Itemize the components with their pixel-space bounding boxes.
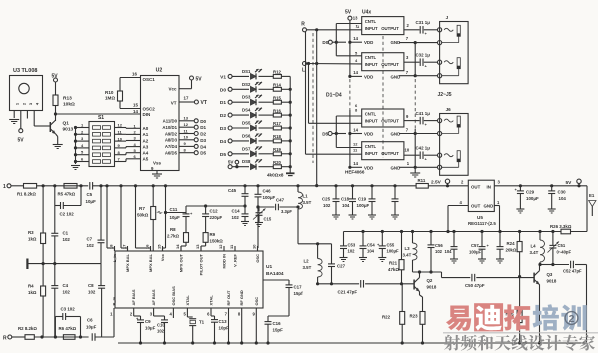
wire vertical to audio bus xyxy=(316,30,318,186)
capacitor C2 102 xyxy=(54,186,56,206)
svg-text:R14: R14 xyxy=(273,83,281,88)
svg-text:102: 102 xyxy=(232,215,240,220)
wire pin4 xyxy=(172,313,174,318)
svg-text:10μF: 10μF xyxy=(86,199,97,204)
svg-text:14: 14 xyxy=(353,127,358,132)
ground C25 xyxy=(332,214,340,216)
svg-text:C57: C57 xyxy=(471,243,479,248)
wire to LED bus xyxy=(281,153,290,155)
svg-text:1kΩ: 1kΩ xyxy=(28,237,37,242)
ground 104 mid xyxy=(450,258,458,260)
svg-text:9018: 9018 xyxy=(547,279,557,284)
svg-text:D3: D3 xyxy=(220,126,226,132)
svg-text:C9: C9 xyxy=(145,319,151,324)
svg-text:C51: C51 xyxy=(558,243,566,248)
svg-text:13: 13 xyxy=(195,244,200,249)
svg-text:D1: D1 xyxy=(220,100,226,106)
svg-text:C10: C10 xyxy=(157,323,165,328)
svg-text:Vss: Vss xyxy=(153,161,162,166)
svg-text:R13: R13 xyxy=(63,96,72,102)
ground C30 xyxy=(548,208,556,210)
capacitor C29 100u xyxy=(519,184,522,187)
svg-text:E1: E1 xyxy=(589,193,595,198)
svg-text:C13: C13 xyxy=(219,319,228,324)
wire U1 top pin risers xyxy=(106,186,108,248)
resistor R2 8.2k xyxy=(12,336,25,338)
resistor R25 xyxy=(519,277,521,310)
svg-text:U2: U2 xyxy=(156,68,163,74)
ground mid rail xyxy=(26,259,28,270)
svg-text:C2 102: C2 102 xyxy=(60,212,75,217)
svg-text:MPX BAL: MPX BAL xyxy=(125,253,130,272)
svg-text:C41 1μ: C41 1μ xyxy=(416,111,431,116)
svg-text:100μF: 100μF xyxy=(263,195,276,200)
5V terminal U2 Vcc xyxy=(179,88,192,90)
svg-text:102: 102 xyxy=(323,203,331,208)
svg-text:C27: C27 xyxy=(337,264,346,269)
svg-text:OUT: OUT xyxy=(471,184,481,189)
svg-text:CNTL: CNTL xyxy=(365,19,377,24)
IC U5 REG1117 xyxy=(468,180,494,211)
svg-text:C50 47pF: C50 47pF xyxy=(465,283,485,288)
svg-text:4k0Ωx8: 4k0Ωx8 xyxy=(267,173,284,178)
svg-text:D5: D5 xyxy=(200,151,206,156)
watermark text rf experts xyxy=(444,335,460,351)
svg-text:13: 13 xyxy=(184,116,189,121)
svg-text:1kΩ: 1kΩ xyxy=(28,290,37,295)
svg-text:S1: S1 xyxy=(98,115,104,121)
wire second bus xyxy=(344,231,562,233)
svg-text:10: 10 xyxy=(184,135,189,140)
wire U3 pins xyxy=(13,111,15,119)
svg-text:Q1: Q1 xyxy=(63,121,70,127)
svg-text:15pF: 15pF xyxy=(273,328,284,333)
svg-text:R18: R18 xyxy=(273,134,281,139)
ground U3 pin1 xyxy=(9,119,19,121)
wire U5 IN to 5V xyxy=(494,185,587,187)
svg-text:R4: R4 xyxy=(28,284,34,289)
transistor Q3 9018 xyxy=(533,273,535,283)
wire L3-C56 node line xyxy=(413,271,442,273)
svg-text:R3: R3 xyxy=(28,230,34,235)
capacitor 104 mid xyxy=(453,232,455,247)
svg-text:GND: GND xyxy=(484,203,494,208)
svg-text:C14: C14 xyxy=(232,209,241,214)
dashed separator left xyxy=(312,33,314,163)
svg-text:U4x: U4x xyxy=(362,10,371,16)
wire GND rail lower xyxy=(414,129,416,173)
dashed separator gnd rail xyxy=(414,79,416,129)
capacitor C18 104 xyxy=(351,184,354,187)
svg-text:OSC BIAS: OSC BIAS xyxy=(171,286,176,306)
capacitor C50 47p xyxy=(471,274,473,282)
svg-text:DS8: DS8 xyxy=(242,159,251,164)
svg-text:R5 47kΩ: R5 47kΩ xyxy=(58,192,76,197)
svg-text:R_in: R_in xyxy=(112,296,117,305)
svg-text:102: 102 xyxy=(63,290,71,295)
svg-text:100μF: 100μF xyxy=(526,196,539,201)
capacitor C21 47p xyxy=(318,283,360,285)
resistor R24 20k xyxy=(519,232,521,242)
wire mid ground rail xyxy=(27,263,101,265)
wire 5V corner down xyxy=(586,186,588,232)
svg-text:3.3pF: 3.3pF xyxy=(281,209,292,214)
svg-text:VDD: VDD xyxy=(364,165,373,170)
svg-text:20kΩ: 20kΩ xyxy=(506,248,517,253)
svg-text:A1: A1 xyxy=(143,132,149,137)
resistor R20 xyxy=(259,166,274,168)
resistor R3 1k xyxy=(42,186,44,233)
wire to LED bus xyxy=(281,114,290,116)
svg-text:CNTL: CNTL xyxy=(365,111,377,116)
watermark circled 2 xyxy=(565,312,578,325)
svg-text:50kΩ: 50kΩ xyxy=(137,213,149,218)
svg-text:CNTL: CNTL xyxy=(365,55,377,60)
transistor Q1 9013 xyxy=(49,122,51,132)
svg-text:R17: R17 xyxy=(273,121,281,126)
svg-text:C32 1μ: C32 1μ xyxy=(416,53,431,58)
svg-text:C11: C11 xyxy=(170,207,178,212)
resistor R21 47k xyxy=(401,232,403,260)
ground C29 xyxy=(516,208,524,210)
svg-text:A9/D2: A9/D2 xyxy=(165,131,178,136)
svg-text:14: 14 xyxy=(133,109,138,114)
svg-text:C1: C1 xyxy=(63,231,69,236)
svg-text:C12: C12 xyxy=(210,209,219,214)
svg-text:U3 TL008: U3 TL008 xyxy=(13,68,37,74)
svg-text:C56: C56 xyxy=(435,243,443,248)
svg-text:C16: C16 xyxy=(273,321,282,326)
ground LED bus xyxy=(286,172,295,174)
resistor R6 47k xyxy=(63,335,75,340)
wires S1 to U2 xyxy=(115,127,127,129)
wire to LED bus xyxy=(281,101,290,103)
svg-text:16: 16 xyxy=(132,72,137,77)
capacitor C19 100u xyxy=(370,184,373,187)
wire R/L risers to lower switches xyxy=(308,64,310,124)
wire LED right bus xyxy=(289,76,291,173)
wire to C50 xyxy=(441,272,443,278)
capacitor C45 xyxy=(243,184,246,187)
svg-text:10μF: 10μF xyxy=(170,215,181,220)
svg-text:Vcc: Vcc xyxy=(168,86,177,91)
resistor R22 xyxy=(400,312,405,325)
svg-text:XTAL: XTAL xyxy=(185,295,190,306)
svg-text:3.4T: 3.4T xyxy=(530,250,539,255)
capacitor C5 10u xyxy=(89,182,91,190)
wire R row xyxy=(307,29,362,31)
wire GND rail upper xyxy=(414,43,416,76)
resistor R16 xyxy=(259,114,274,116)
svg-text:1MΩ: 1MΩ xyxy=(105,96,115,101)
wire pins 7-9 down xyxy=(228,313,230,343)
svg-text:L: L xyxy=(302,68,305,74)
node L input xyxy=(303,62,307,66)
svg-text:U5: U5 xyxy=(477,215,483,220)
capacitor C30 104 xyxy=(550,184,553,187)
svg-text:L3: L3 xyxy=(405,246,411,251)
svg-text:L_in: L_in xyxy=(112,253,117,262)
svg-text:14: 14 xyxy=(353,161,358,166)
svg-text:V1: V1 xyxy=(220,74,226,80)
svg-text:AF BIAS: AF BIAS xyxy=(151,289,156,305)
svg-text:D0: D0 xyxy=(200,119,206,124)
svg-text:R20: R20 xyxy=(273,160,281,165)
svg-text:102: 102 xyxy=(435,249,443,254)
svg-text:R8: R8 xyxy=(170,227,176,232)
svg-text:R: R xyxy=(301,22,305,28)
wire bottom ground bus xyxy=(118,342,587,344)
capacitor C7 102 xyxy=(100,186,102,240)
svg-text:0~40pF: 0~40pF xyxy=(557,250,572,255)
wire to LED bus xyxy=(281,127,290,129)
transistor Q2 9018 xyxy=(413,280,415,290)
svg-text:PILOT OUT: PILOT OUT xyxy=(199,253,204,275)
capacitor C27 xyxy=(331,244,333,264)
svg-text:DS1: DS1 xyxy=(242,69,251,74)
svg-text:C6: C6 xyxy=(87,318,93,323)
svg-text:C25: C25 xyxy=(322,197,331,202)
svg-text:VT: VT xyxy=(171,101,177,106)
svg-text:5V: 5V xyxy=(52,74,59,80)
svg-text:L2: L2 xyxy=(304,259,310,264)
svg-text:100μF: 100μF xyxy=(469,250,482,255)
svg-text:DS3: DS3 xyxy=(242,95,251,100)
svg-text:102: 102 xyxy=(157,329,165,334)
svg-text:17: 17 xyxy=(184,96,189,101)
svg-text:T1: T1 xyxy=(199,320,205,325)
ground C18 xyxy=(349,214,357,216)
crystal T1 xyxy=(186,313,188,317)
svg-text:100μF: 100μF xyxy=(387,249,400,254)
svg-text:R6 47kΩ: R6 47kΩ xyxy=(59,326,77,331)
capacitor C10 102 xyxy=(153,313,155,316)
svg-text:C17: C17 xyxy=(294,285,303,290)
svg-text:CNTL: CNTL xyxy=(365,144,377,149)
svg-text:R22: R22 xyxy=(382,315,391,320)
svg-text:C18: C18 xyxy=(341,197,350,202)
svg-text:Vcc: Vcc xyxy=(160,253,165,261)
svg-text:C5: C5 xyxy=(87,192,93,197)
capacitor C55 100u xyxy=(381,232,383,246)
svg-text:15pf: 15pf xyxy=(294,291,304,296)
wire Q1 emitter xyxy=(56,134,58,137)
resistor R4 1k xyxy=(42,264,44,286)
capacitor C57 100u xyxy=(481,232,483,247)
svg-text:D4: D4 xyxy=(200,144,206,149)
svg-text:DS7: DS7 xyxy=(242,146,251,151)
svg-text:R9: R9 xyxy=(210,232,216,237)
resistor R23 xyxy=(420,312,425,325)
resistor R14 xyxy=(259,88,274,90)
svg-text:V_REF: V_REF xyxy=(233,253,238,266)
resistor R10 1M xyxy=(120,77,141,79)
svg-text:R26 3.3kΩ: R26 3.3kΩ xyxy=(550,224,572,229)
ground third xyxy=(496,258,504,260)
wire Q3 emitter xyxy=(539,285,541,344)
nodes D0-D5 xyxy=(179,120,194,122)
capacitor bypass third xyxy=(499,232,501,247)
svg-text:OSC1: OSC1 xyxy=(143,77,156,82)
inductor L4 3.4T xyxy=(539,232,541,241)
svg-text:Q2: Q2 xyxy=(427,278,433,283)
resistor R15 xyxy=(259,101,274,103)
potentiometer R7 50k xyxy=(152,186,154,207)
svg-text:102: 102 xyxy=(88,290,96,295)
resistor R26 3.3k xyxy=(561,229,571,234)
svg-text:MOD IN: MOD IN xyxy=(222,254,227,269)
svg-text:10pF: 10pF xyxy=(219,326,230,331)
ground C53 xyxy=(340,257,348,259)
svg-text:VDD: VDD xyxy=(364,40,373,45)
resistor R5 47k xyxy=(64,184,77,189)
svg-text:A0: A0 xyxy=(143,126,149,131)
wire to LED bus xyxy=(281,140,290,142)
wire bottom path xyxy=(34,336,88,338)
watermark red block xyxy=(474,303,503,331)
capacitor C53 102 xyxy=(343,232,345,246)
analog switch U4c block3 xyxy=(362,109,404,127)
svg-text:10: 10 xyxy=(405,148,410,153)
svg-text:2: 2 xyxy=(569,313,575,325)
capacitor C46 100u xyxy=(256,184,259,187)
svg-text:INPUT: INPUT xyxy=(365,119,378,124)
svg-text:C53: C53 xyxy=(348,243,356,248)
svg-text:D2: D2 xyxy=(200,132,206,137)
svg-text:XTAL: XTAL xyxy=(209,295,214,306)
svg-text:C21 47pF: C21 47pF xyxy=(338,290,358,295)
svg-text:REG1117-(2.5: REG1117-(2.5 xyxy=(468,221,496,226)
svg-text:R2 8.2kΩ: R2 8.2kΩ xyxy=(18,326,37,331)
svg-text:C3 102: C3 102 xyxy=(61,307,76,312)
svg-text:GND: GND xyxy=(391,132,401,137)
svg-text:10μF: 10μF xyxy=(145,326,156,331)
svg-text:C31 1μ: C31 1μ xyxy=(416,20,431,25)
capacitor C3 102 xyxy=(54,317,56,338)
svg-text:OUTPUT: OUTPUT xyxy=(381,26,399,31)
svg-text:15: 15 xyxy=(157,244,162,249)
svg-text:MPX OUT: MPX OUT xyxy=(179,253,184,272)
wire C46 node to OSC pin10 xyxy=(257,207,259,248)
svg-text:R19: R19 xyxy=(273,147,281,152)
wire top path xyxy=(37,185,89,187)
capacitor C17 15p xyxy=(263,279,289,281)
svg-text:DS2: DS2 xyxy=(242,82,251,87)
ground C35 xyxy=(255,222,263,224)
svg-text:DIN: DIN xyxy=(143,112,151,117)
resistor R19 xyxy=(259,153,274,155)
svg-text:OUTPUT: OUTPUT xyxy=(381,119,399,124)
svg-text:A10/D1: A10/D1 xyxy=(162,125,177,130)
svg-text:L1: L1 xyxy=(303,194,309,199)
svg-text:220μF: 220μF xyxy=(210,215,223,220)
capacitor C9 10u xyxy=(133,313,135,316)
svg-text:A11/D0: A11/D0 xyxy=(163,119,178,124)
svg-text:BA1404: BA1404 xyxy=(266,271,284,277)
svg-text:C47: C47 xyxy=(276,198,285,203)
svg-text:14: 14 xyxy=(353,36,358,41)
svg-text:3.4T: 3.4T xyxy=(403,253,412,258)
resistor R11 xyxy=(416,184,428,189)
svg-text:U1: U1 xyxy=(266,264,272,270)
svg-text:12: 12 xyxy=(353,142,358,147)
wire U1 pin1 riser xyxy=(113,313,115,337)
svg-text:12: 12 xyxy=(118,123,123,128)
svg-text:2.7kΩ: 2.7kΩ xyxy=(167,234,180,239)
svg-text:15: 15 xyxy=(133,103,138,108)
ground C57 xyxy=(478,258,486,260)
svg-text:C42 1μ: C42 1μ xyxy=(416,145,431,150)
svg-text:9013: 9013 xyxy=(63,127,74,133)
svg-text:INPUT: INPUT xyxy=(365,62,378,67)
svg-text:A3: A3 xyxy=(143,144,149,149)
ground S1 bus xyxy=(71,165,80,167)
svg-text:OSC2: OSC2 xyxy=(143,107,156,112)
ground 4th cap xyxy=(391,214,399,216)
svg-text:A2: A2 xyxy=(143,138,149,143)
svg-text:C52 47pF: C52 47pF xyxy=(563,269,582,274)
capacitor C4 102 xyxy=(54,264,56,286)
wire D0 to CNTL pins xyxy=(335,24,337,56)
capacitor C8 102 xyxy=(100,264,102,286)
svg-text:MPX BAL: MPX BAL xyxy=(148,253,153,272)
resistor R1 8.2k xyxy=(11,185,24,187)
svg-text:Q3: Q3 xyxy=(547,272,553,277)
svg-text:IN: IN xyxy=(487,184,491,189)
wire MPX line xyxy=(185,206,187,213)
svg-text:R23: R23 xyxy=(410,314,419,319)
svg-text:R12: R12 xyxy=(273,70,281,75)
ground C55 xyxy=(378,257,386,259)
capacitor C16 15p xyxy=(268,315,289,317)
capacitor C12 220p xyxy=(202,213,209,215)
svg-text:AF BIAS: AF BIAS xyxy=(131,289,136,305)
svg-text:12: 12 xyxy=(184,122,189,127)
wire Q2 emitter to R23 xyxy=(419,292,421,296)
inductor L2 3.5T xyxy=(317,244,319,259)
svg-text:10μF: 10μF xyxy=(86,325,97,330)
wire to LED bus xyxy=(281,166,290,168)
node 2.5V xyxy=(428,185,468,187)
capacitor decoupling 4th xyxy=(393,184,396,187)
svg-text:R1 8.2kΩ: R1 8.2kΩ xyxy=(17,192,36,197)
capacitor C56 102 xyxy=(430,232,432,245)
svg-text:1: 1 xyxy=(3,184,6,190)
svg-text:VT: VT xyxy=(201,100,207,106)
svg-text:D5: D5 xyxy=(220,152,226,158)
IC U1 BA1404 xyxy=(115,251,263,308)
svg-text:L4: L4 xyxy=(531,244,537,249)
inductor L3 3.4T xyxy=(412,232,414,244)
ground U4 GND rail xyxy=(410,172,420,174)
svg-text:OUT: OUT xyxy=(471,203,481,208)
svg-text:D2: D2 xyxy=(220,113,226,119)
ground C14 xyxy=(241,221,249,223)
dashed separator vdd rail xyxy=(349,79,351,110)
svg-text:C29: C29 xyxy=(526,190,535,195)
svg-text:OSC: OSC xyxy=(255,254,260,263)
svg-text:GND: GND xyxy=(391,165,401,170)
svg-text:RF OUT: RF OUT xyxy=(226,290,231,305)
svg-text:OUTPUT: OUTPUT xyxy=(381,62,399,67)
svg-text:5V: 5V xyxy=(196,77,203,83)
svg-text:14: 14 xyxy=(353,70,358,75)
svg-text:J2~J5: J2~J5 xyxy=(438,92,452,98)
svg-text:102: 102 xyxy=(63,237,71,242)
svg-text:104: 104 xyxy=(367,249,375,254)
svg-text:C30: C30 xyxy=(558,190,567,195)
wire S1 left bus xyxy=(75,128,77,165)
